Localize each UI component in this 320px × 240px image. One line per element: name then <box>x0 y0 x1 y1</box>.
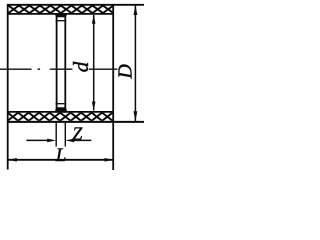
svg-text:d: d <box>69 61 93 72</box>
svg-text:D: D <box>114 64 136 80</box>
svg-text:L: L <box>55 145 67 166</box>
svg-text:Z: Z <box>72 124 83 144</box>
